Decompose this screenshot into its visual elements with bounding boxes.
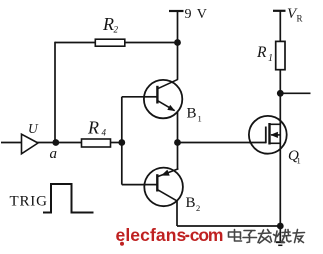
wire B2 collector lead down — [176, 201, 178, 226]
wire B2 emitter lead up — [177, 143, 179, 170]
烧 — [274, 230, 292, 243]
label R1 — [256, 44, 273, 64]
resistor R1 — [276, 41, 285, 69]
wire resistor R4 to junction — [111, 142, 122, 144]
svg-text:2: 2 — [114, 25, 119, 35]
label U — [28, 121, 39, 136]
svg-text:B: B — [186, 195, 196, 211]
resistor R4 — [82, 139, 111, 147]
svg-text:R: R — [297, 14, 303, 24]
node junction on 9V rail — [174, 39, 181, 46]
svg-text:R: R — [87, 118, 99, 138]
resistor R2 — [95, 39, 125, 46]
ground — [276, 226, 285, 245]
wire VR terminal down to R1 — [279, 11, 281, 42]
友 — [293, 230, 305, 243]
子 — [243, 231, 257, 243]
trigger pulse waveform — [43, 184, 94, 213]
wire R1 bottom to drain junction — [279, 70, 281, 94]
wire emitters node to MOSFET gate — [178, 142, 266, 144]
svg-text:elecfans: elecfans — [116, 225, 187, 245]
wire left vertical from rail down to node a — [54, 42, 56, 143]
transistor B2 (PNP) — [144, 168, 183, 207]
wire 9V vertical down to B1 collector — [177, 11, 179, 80]
node a — [52, 139, 59, 146]
wire to B1 base — [122, 96, 158, 98]
wire base-splitter vertical — [121, 97, 123, 185]
watermark elecfans.com — [116, 225, 223, 246]
svg-text:TRIG: TRIG — [10, 194, 48, 210]
svg-text:a: a — [50, 146, 58, 162]
wire inverter output to node a — [37, 142, 56, 144]
node emitters junction — [174, 139, 181, 146]
wire to B2 base — [122, 184, 158, 186]
watermark chinese characters 电子发烧友 — [229, 230, 305, 244]
wire drain-source vertical through Q1 — [279, 93, 281, 226]
svg-text:R: R — [256, 44, 267, 61]
label 9 V — [185, 7, 208, 22]
svg-text:B: B — [187, 106, 197, 122]
power terminal 9V tick — [169, 10, 184, 12]
label a — [50, 146, 58, 162]
wire bottom rail — [177, 225, 280, 227]
label B1 — [187, 106, 202, 124]
发 — [258, 230, 272, 244]
wire B1 emitter lead — [177, 112, 179, 143]
wire inverter input from left edge — [1, 142, 22, 144]
label VR — [287, 6, 303, 23]
label Q1 — [288, 148, 301, 166]
wire output to right — [280, 92, 310, 94]
svg-text:9 V: 9 V — [185, 7, 208, 22]
svg-text:1: 1 — [297, 156, 301, 166]
wire top rail horizontal — [55, 42, 178, 44]
node bottom junction — [277, 223, 284, 230]
label R2 — [102, 14, 119, 35]
svg-text:1: 1 — [198, 114, 202, 124]
svg-text:1: 1 — [268, 53, 273, 64]
label TRIG — [10, 194, 48, 210]
电 — [229, 230, 242, 242]
svg-text:U: U — [28, 121, 39, 136]
svg-text:2: 2 — [196, 203, 200, 213]
wire node a to resistor R4 — [56, 142, 82, 144]
svg-text:com: com — [190, 225, 223, 245]
buffer U triangle — [22, 134, 39, 154]
svg-text:R: R — [102, 14, 114, 34]
mosfet Q1 — [249, 116, 287, 154]
label B2 — [186, 195, 201, 213]
node junction after R4 — [118, 139, 125, 146]
terminal VR tick — [273, 10, 286, 12]
node drain junction — [277, 90, 284, 97]
transistor B1 (NPN) — [143, 79, 182, 118]
svg-text:4: 4 — [102, 128, 107, 138]
label R4 — [87, 118, 107, 138]
